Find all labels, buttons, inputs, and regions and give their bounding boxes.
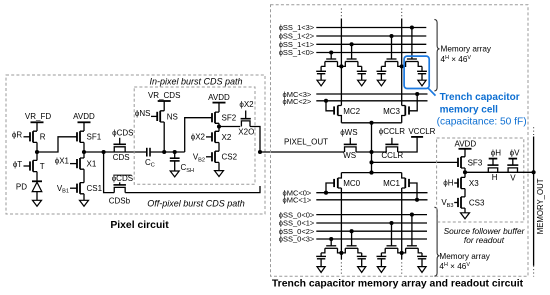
memory cell transistor cell3 gate stub <box>391 36 393 59</box>
wire phiMC<3> line <box>316 93 427 95</box>
svg-text:MC2: MC2 <box>343 107 360 116</box>
wire PIXEL_OUT to CCLR <box>356 151 387 153</box>
label Memory array top <box>441 45 492 64</box>
node cell5/cell6 column junction <box>339 251 343 255</box>
node cell7/cell8 column junction <box>400 251 404 255</box>
svg-text:ϕMC<1>: ϕMC<1> <box>283 196 312 205</box>
svg-text:VR_CDS: VR_CDS <box>148 91 180 100</box>
memory cell transistor cell7 gate stub <box>391 223 393 246</box>
ground below PD <box>33 200 42 206</box>
memory cell transistor cell1 <box>326 58 336 60</box>
svg-text:VR_FD: VR_FD <box>25 112 51 121</box>
transistor MC3 <box>383 94 417 123</box>
node MC1 gate on phiMC<1> <box>415 198 419 202</box>
svg-text:X1: X1 <box>87 160 97 169</box>
wire SF2 source to X2O <box>219 126 240 128</box>
svg-text:X2O: X2O <box>238 128 254 137</box>
wire SF1 source rail to Cc <box>84 151 147 153</box>
trench capacitor of cell3 <box>380 66 382 71</box>
node CDSb branch junction <box>102 150 106 154</box>
wire readout output rail <box>465 171 534 173</box>
transistor SF3 source follower <box>458 157 483 173</box>
terminal VR_FD <box>25 112 51 131</box>
node SF3 source junction <box>463 170 467 174</box>
transistor MC1 <box>383 173 417 200</box>
svg-text:MC0: MC0 <box>343 179 360 188</box>
svg-text:(capacitance: 50 fF): (capacitance: 50 fF) <box>437 117 527 128</box>
svg-text:CS3: CS3 <box>469 198 485 207</box>
ground below CS3 <box>461 213 470 219</box>
svg-text:R: R <box>40 133 46 142</box>
svg-text:PIXEL_OUT: PIXEL_OUT <box>284 137 328 146</box>
wire phiMC<1> line <box>316 199 427 201</box>
transistor NS noise sampling <box>151 111 178 122</box>
memory cell transistor cell8 <box>407 245 417 247</box>
memory cell transistor cell1 gate stub <box>330 53 332 60</box>
node cell1/cell2 column junction <box>339 64 343 68</box>
node PIXEL_OUT memory junction <box>369 150 373 154</box>
node MC0-MC1 rail junction <box>369 171 373 175</box>
label Memory array bottom <box>439 252 490 271</box>
transistor CS2 current source <box>206 151 238 170</box>
svg-text:ϕCCLR: ϕCCLR <box>379 127 405 136</box>
memory cell transistor cell7 <box>387 245 397 247</box>
svg-text:ϕMC<2>: ϕMC<2> <box>283 97 312 106</box>
svg-text:Trench capacitor: Trench capacitor <box>440 92 520 103</box>
svg-text:Trench capacitor memory array: Trench capacitor memory array and readou… <box>272 279 524 290</box>
svg-text:CDSb: CDSb <box>109 196 131 205</box>
node SF1 source junction <box>82 150 86 154</box>
svg-text:VCCLR: VCCLR <box>408 127 435 136</box>
ground below CS1 <box>80 200 89 206</box>
svg-text:ϕWS: ϕWS <box>340 128 357 137</box>
svg-text:AVDD: AVDD <box>208 93 230 102</box>
trench capacitor of cell4 <box>421 66 423 71</box>
trench capacitor of cell5 <box>320 253 322 257</box>
wire MC2-MC3 common rail <box>341 122 401 124</box>
node SF2 source junction <box>217 124 221 128</box>
svg-text:CDS: CDS <box>113 153 130 162</box>
svg-text:X3: X3 <box>469 179 479 188</box>
column line 2 lower segment <box>401 188 403 259</box>
label Trench capacitor memory cell <box>437 92 527 127</box>
node pixel-out column junction <box>258 150 262 154</box>
ground below CSH <box>170 171 179 177</box>
terminal VR_CDS <box>148 91 180 111</box>
memory cell transistor cell8 gate stub <box>411 215 413 246</box>
transistor SF2 source follower <box>212 112 237 126</box>
switch X2O <box>238 100 254 136</box>
transistor CS3 current source <box>454 197 485 213</box>
svg-text:CS2: CS2 <box>222 153 238 162</box>
MEMORY_OUT bus (dotted continuation top) <box>533 127 535 136</box>
wire Cc to SF2 gate <box>150 118 212 159</box>
trench capacitor of cell2 <box>361 66 363 71</box>
column line 2 upper segment <box>401 19 403 106</box>
column line 2 upper (dotted continuation) <box>401 9 403 19</box>
svg-text:AVDD: AVDD <box>454 139 476 148</box>
memory cell transistor cell5 gate stub <box>330 239 332 246</box>
transistor X2 <box>206 127 232 152</box>
svg-text:Memory array: Memory array <box>441 45 492 54</box>
node FD junction <box>35 150 39 154</box>
wire MC0-MC1 common rail <box>341 172 401 174</box>
pointer line to blue label <box>428 88 435 95</box>
memory cell transistor cell2 <box>347 58 357 60</box>
svg-text:T: T <box>40 162 45 171</box>
svg-text:V: V <box>510 174 516 183</box>
transistor MC2 <box>326 101 361 123</box>
memory cell transistor cell5 <box>326 245 336 247</box>
MEMORY_OUT bus line <box>533 137 535 266</box>
wire CDSb branch <box>104 152 115 193</box>
switch CDS <box>112 129 133 162</box>
svg-text:Memory array: Memory array <box>439 252 490 261</box>
highlight box: trench capacitor memory cell <box>404 56 429 88</box>
svg-text:ϕV: ϕV <box>510 148 520 157</box>
switch V <box>507 148 520 182</box>
column line 1 upper segment <box>340 19 342 106</box>
memory cell transistor cell3 <box>387 58 397 60</box>
trench capacitor of cell8 <box>421 253 423 257</box>
memory cell transistor cell2 gate stub <box>351 44 353 59</box>
trench capacitor of cell6 <box>361 253 363 257</box>
wire phiSS_1<2> line <box>316 35 426 37</box>
dashed box: Trench capacitor memory array and readout circuit <box>271 5 529 277</box>
ground below CS2 <box>215 171 224 177</box>
column line 2 lower (dotted continuation) <box>401 259 403 275</box>
svg-text:AVDD: AVDD <box>73 112 95 121</box>
terminal AVDD (CDS SF) <box>208 93 230 112</box>
wire central memory node <box>371 123 373 173</box>
svg-text:ϕR: ϕR <box>12 131 22 140</box>
wire phiSS_1<0> line <box>316 52 426 54</box>
node memory rail top junction <box>369 121 373 125</box>
wire X2O output to pixel-out column <box>250 127 260 153</box>
svg-text:Pixel circuit: Pixel circuit <box>110 220 169 231</box>
capacitor Cc <box>145 148 155 169</box>
wire phiSS_0<3> line <box>316 238 427 240</box>
svg-text:NS: NS <box>167 112 178 121</box>
svg-text:Off-pixel burst CDS path: Off-pixel burst CDS path <box>147 199 245 209</box>
wire phiSS_0<1> line <box>316 222 427 224</box>
svg-text:ϕCDS: ϕCDS <box>112 129 133 138</box>
svg-text:CS1: CS1 <box>87 184 103 193</box>
dashed box: source follower buffer for readout <box>437 138 524 222</box>
transistor X3 <box>454 172 479 197</box>
trench capacitor of cell1 <box>320 66 322 71</box>
svg-text:ϕX2: ϕX2 <box>191 132 206 141</box>
switch CCLR <box>379 127 405 160</box>
transistor MC0 <box>326 173 361 193</box>
node cell3/cell4 column junction <box>400 64 404 68</box>
svg-text:ϕNS: ϕNS <box>135 109 151 118</box>
svg-text:ϕSS_0<3>: ϕSS_0<3> <box>279 235 315 244</box>
terminal VCCLR <box>408 127 435 137</box>
svg-text:SF1: SF1 <box>87 133 102 142</box>
svg-text:MC3: MC3 <box>383 107 400 116</box>
wire phiMC<2> line <box>316 100 427 102</box>
svg-text:ϕX2: ϕX2 <box>239 100 254 109</box>
column line 1 upper (dotted continuation) <box>340 9 342 19</box>
node CSH junction <box>173 150 177 154</box>
transistor SF1 source follower <box>77 131 102 152</box>
svg-text:X2: X2 <box>222 133 232 142</box>
transistor CS1 current source <box>70 183 103 201</box>
switch WS <box>340 128 357 160</box>
wire phiSS_1<1> line <box>316 43 426 45</box>
svg-text:ϕH: ϕH <box>443 179 453 188</box>
svg-text:MC1: MC1 <box>383 179 400 188</box>
wire CCLR to VCCLR <box>398 137 417 152</box>
svg-text:In-pixel burst CDS path: In-pixel burst CDS path <box>149 77 242 87</box>
svg-text:MEMORY_OUT: MEMORY_OUT <box>536 178 545 234</box>
svg-text:SF2: SF2 <box>222 114 237 123</box>
wire CDSb output to pixel-out column <box>125 186 260 193</box>
wire FD node to SF1 gate <box>37 137 77 152</box>
svg-text:SF3: SF3 <box>468 158 483 167</box>
transistor R (reset) <box>24 131 46 152</box>
wire memory node to SF3 gate <box>372 161 459 163</box>
switch CDSb <box>109 174 133 205</box>
memory cell transistor cell6 <box>347 245 357 247</box>
wire phiSS_1<3> line <box>316 27 426 29</box>
terminal AVDD (readout SF) <box>454 139 476 157</box>
node MC0 gate on phiMC<0> <box>324 191 328 195</box>
photodiode PD <box>32 181 42 200</box>
column line 1 lower (dotted continuation) <box>340 259 342 275</box>
capacitor CSH <box>170 158 194 174</box>
wire PIXEL_OUT <box>260 151 344 153</box>
memory cell transistor cell4 gate stub <box>411 28 413 60</box>
title Source follower buffer for readout <box>444 226 526 245</box>
svg-text:PD: PD <box>16 182 27 191</box>
node MC2 gate on phiMC<2> <box>324 99 328 103</box>
svg-text:memory cell: memory cell <box>440 104 499 115</box>
wire phiSS_0<0> line <box>316 214 427 216</box>
memory cell transistor cell6 gate stub <box>351 231 353 246</box>
svg-text:ϕT: ϕT <box>13 160 22 169</box>
svg-text:ϕX1: ϕX1 <box>55 156 70 165</box>
terminal AVDD (pixel SF) <box>73 112 95 131</box>
brace memory array bottom <box>434 207 439 276</box>
node NS source junction <box>162 150 166 154</box>
dashed box: In-pixel burst CDS path <box>134 87 255 184</box>
dashed box: Pixel circuit block <box>6 75 265 214</box>
transistor T (transfer) <box>24 152 45 181</box>
svg-text:H: H <box>492 173 498 182</box>
memory cell transistor cell4 <box>407 58 417 60</box>
svg-text:ϕH: ϕH <box>491 148 501 157</box>
node MC3 gate on phiMC<3> <box>415 92 419 96</box>
switch H <box>488 148 502 182</box>
wire phiSS_0<2> line <box>316 230 427 232</box>
svg-text:ϕSS_1<0>: ϕSS_1<0> <box>279 48 315 57</box>
svg-text:WS: WS <box>343 151 356 160</box>
svg-text:for readout: for readout <box>464 235 505 245</box>
MEMORY_OUT bus (dotted continuation bottom) <box>533 266 535 277</box>
trench capacitor of cell7 <box>380 253 382 257</box>
wire phiMC<0> line <box>316 192 427 194</box>
node MEMORY_OUT junction <box>532 170 536 174</box>
node readout tap junction <box>369 160 373 164</box>
column line 1 lower segment <box>340 188 342 259</box>
transistor X1 <box>70 152 97 183</box>
brace memory array top <box>434 19 439 91</box>
